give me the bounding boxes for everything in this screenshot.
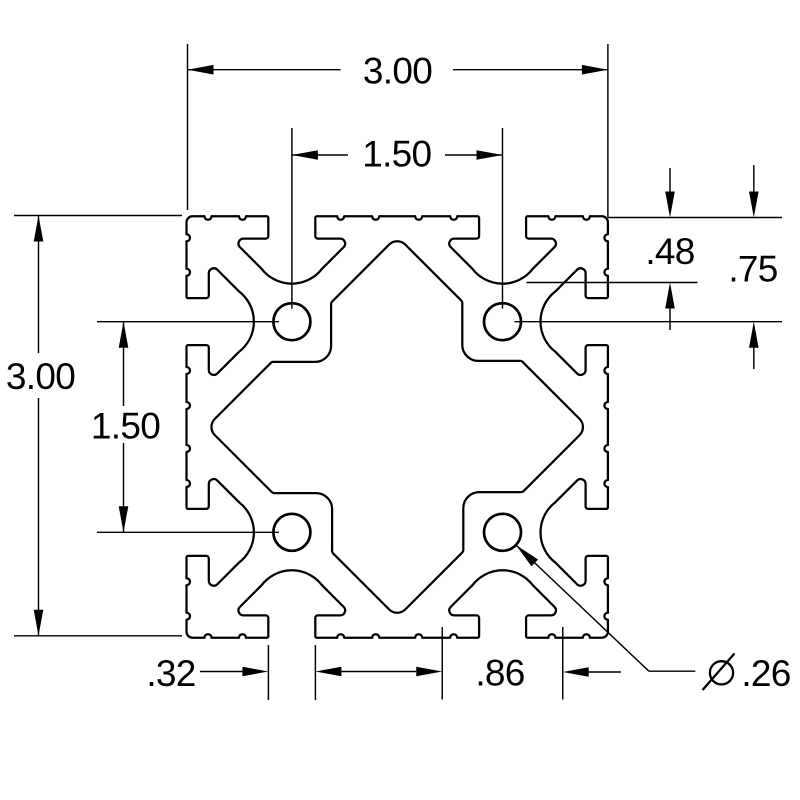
svg-text:3.00: 3.00 bbox=[363, 50, 432, 91]
svg-text:1.50: 1.50 bbox=[91, 405, 160, 446]
svg-text:.86: .86 bbox=[475, 652, 524, 693]
svg-text:.32: .32 bbox=[146, 653, 195, 694]
svg-text:3.00: 3.00 bbox=[6, 356, 75, 397]
svg-text:.26: .26 bbox=[741, 653, 790, 694]
svg-text:.48: .48 bbox=[645, 231, 694, 272]
svg-text:1.50: 1.50 bbox=[362, 133, 431, 174]
svg-text:.75: .75 bbox=[728, 248, 777, 289]
